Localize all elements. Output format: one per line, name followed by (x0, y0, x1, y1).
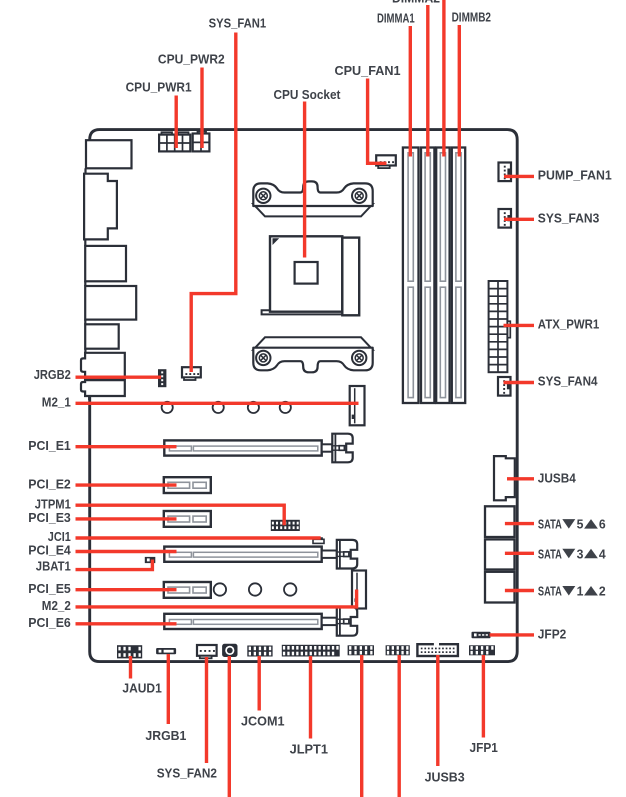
label JCOM1 (241, 714, 285, 729)
svg-text:SYS_FAN2: SYS_FAN2 (157, 766, 217, 781)
leader JRGB1 (167, 654, 170, 724)
label M2_2 (42, 598, 71, 613)
leader PCI_E6 (76, 622, 177, 625)
header JLPT1 (282, 645, 340, 657)
mounting holes row (162, 402, 291, 413)
leader PUMP_FAN1 (504, 175, 534, 178)
DIMM slot DIMMA1 (403, 148, 419, 404)
connector CPU_FAN1 (376, 155, 396, 168)
leader JUSB1 (360, 655, 363, 797)
connector JUSB4 (494, 456, 515, 500)
label DIMMA1 (377, 10, 415, 25)
label SYS_FAN2 (157, 766, 217, 781)
svg-text:PCI_E4: PCI_E4 (28, 543, 71, 558)
jumper JBAT1 (145, 557, 156, 563)
svg-text:JAUD1: JAUD1 (122, 680, 161, 695)
slot PCI_E6 (x16) (164, 607, 357, 636)
label ATX_PWR1 (538, 316, 600, 331)
edge segment ports 1-2 (84, 168, 86, 173)
svg-text:CPU_FAN1: CPU_FAN1 (335, 63, 401, 78)
leader SYS_FAN2 (205, 657, 208, 763)
CPU bracket top (253, 181, 372, 216)
leader JRGB2 (76, 376, 162, 379)
svg-text:JFP1: JFP1 (470, 740, 498, 755)
label SATA 1/2 (538, 584, 606, 599)
connector SYS_FAN2 (197, 645, 217, 658)
CPU socket center pad (295, 262, 318, 284)
svg-text:5: 5 (577, 517, 584, 532)
label JRGB2 (34, 367, 71, 382)
label PCI_E5 (28, 581, 71, 596)
svg-text:SATA: SATA (538, 517, 562, 532)
CPU bracket bottom (253, 337, 372, 372)
label SYS_FAN4 (538, 374, 599, 389)
svg-text:PCI_E5: PCI_E5 (28, 581, 71, 596)
svg-text:JUSB3: JUSB3 (425, 769, 465, 784)
leader SYS_FAN3 (504, 218, 534, 221)
leader JUSB2 (398, 655, 401, 797)
svg-text:JBAT1: JBAT1 (36, 558, 71, 573)
leader PCI_E5 (76, 588, 177, 591)
slot PCI_E5 (x1) (164, 582, 211, 598)
I/O audio jack 1 (81, 353, 125, 379)
leader JCOM1 (258, 656, 261, 711)
svg-text:DIMMA1: DIMMA1 (377, 10, 415, 25)
leader JLPT1 (309, 656, 312, 739)
connector M2_1 (350, 386, 365, 425)
leader CPU Socket (303, 102, 306, 258)
connector JCI1 (313, 538, 324, 543)
svg-text:1: 1 (577, 584, 584, 599)
slot PCI_E2 (x1) (164, 477, 211, 493)
leader M2_2 (76, 590, 357, 607)
label DIMMB2 (452, 10, 491, 25)
leader PCI_E2 (76, 483, 177, 486)
label JUSB4 (538, 471, 577, 486)
leader DIMMA1 (409, 26, 412, 157)
DIMM slot DIMMB2 (452, 148, 465, 404)
connector SYS_FAN3 (499, 209, 512, 228)
leader PCI_E4 (76, 550, 177, 553)
leader DIMMB2 (458, 25, 461, 157)
svg-text:JUSB4: JUSB4 (538, 471, 577, 486)
leader JBAT1 (76, 560, 153, 570)
leader DIMMA2 (426, 5, 429, 157)
leader SYS_FAN4 (504, 381, 535, 384)
leader JFP2 (490, 633, 534, 636)
leader JUSB4 (507, 477, 534, 480)
connector SATA 5/6 (485, 506, 515, 537)
svg-text:DIMMA2: DIMMA2 (392, 0, 440, 5)
svg-text:SYS_FAN3: SYS_FAN3 (538, 210, 600, 225)
header JUSB1 (348, 645, 374, 655)
leader DIMMB1 (442, 0, 445, 157)
label CPU Socket (274, 87, 342, 102)
leader JCI1 (76, 536, 321, 539)
connector CPU_PWR1 (8-pin) (159, 132, 190, 151)
header JUSB3 (417, 644, 458, 656)
label JTPM1 (35, 496, 71, 511)
label SATA 5/6 (538, 517, 606, 532)
connector SATA 1/2 (485, 572, 515, 603)
leader ATX_PWR1 (504, 324, 535, 327)
leader CPU_PWR1 (174, 96, 177, 149)
connector M2_2 (352, 571, 366, 609)
leader JTPM1 (76, 505, 285, 525)
label JFP2 (538, 627, 567, 642)
connector JRGB1 (156, 648, 176, 654)
I/O port DVI (84, 174, 117, 240)
svg-text:M2_2: M2_2 (42, 598, 71, 613)
DIMM slot DIMMA2 (421, 148, 434, 404)
edge segment ports 3-4 (84, 281, 86, 286)
label JAUD1 (122, 680, 161, 695)
svg-text:SYS_FAN1: SYS_FAN1 (209, 16, 267, 31)
label SATA 3/4 (538, 546, 607, 561)
label JBAT1 (36, 558, 71, 573)
svg-text:CPU_PWR2: CPU_PWR2 (158, 51, 225, 66)
svg-text:CPU Socket: CPU Socket (274, 87, 342, 102)
svg-text:JCOM1: JCOM1 (241, 714, 285, 729)
label CPU_PWR1 (126, 80, 192, 95)
svg-text:ATX_PWR1: ATX_PWR1 (538, 316, 600, 331)
svg-text:4: 4 (599, 546, 607, 561)
slot PCI_E3 (x1) (164, 511, 211, 527)
svg-text:SYS_FAN4: SYS_FAN4 (538, 374, 599, 389)
connector speaker/jack round (222, 644, 237, 657)
label JUSB3 (425, 769, 465, 784)
DIMM slot DIMMB1 (436, 148, 449, 404)
label PUMP_FAN1 (538, 167, 612, 182)
connector CPU_PWR2 (4-pin) (193, 132, 210, 152)
connector JRGB2 (158, 369, 166, 387)
label PCI_E2 (28, 476, 71, 491)
svg-text:JRGB2: JRGB2 (34, 367, 71, 382)
edge segment ports 7-bottom (88, 396, 90, 400)
slot PCI_E4 (x16) (164, 540, 357, 569)
leader SATA56 (505, 522, 534, 525)
svg-text:CPU_PWR1: CPU_PWR1 (126, 80, 192, 95)
svg-text:PCI_E6: PCI_E6 (28, 615, 71, 630)
leader PCI_E3 (76, 517, 177, 520)
label SYS_FAN1 (209, 16, 267, 31)
leader SATA12 (505, 589, 534, 592)
slot PCI_E1 (x16) (164, 434, 352, 463)
label CPU_PWR2 (158, 51, 225, 66)
connector JFP2 (472, 632, 491, 639)
label SYS_FAN3 (538, 210, 600, 225)
edge segment ports 4-5 (84, 320, 86, 325)
svg-text:6: 6 (599, 517, 606, 532)
svg-text:SATA: SATA (538, 584, 562, 599)
leader JUSB3 (436, 655, 439, 766)
svg-text:JLPT1: JLPT1 (290, 742, 328, 757)
motherboard outline (90, 130, 518, 662)
label DIMMA2 (392, 0, 440, 5)
svg-text:PCI_E2: PCI_E2 (28, 476, 71, 491)
label PCI_E3 (28, 510, 71, 525)
leader SYS_FAN1 (191, 33, 236, 373)
connector ATX_PWR1 (24-pin) (489, 281, 511, 372)
label JRGB1 (145, 728, 186, 743)
label JLPT1 (290, 742, 328, 757)
I/O port PS2 (86, 140, 132, 168)
label M2_1 (42, 395, 71, 410)
svg-text:DIMMB2: DIMMB2 (452, 10, 491, 25)
leader JAUD1 (129, 656, 132, 679)
header JAUD1 (117, 645, 142, 658)
svg-text:PUMP_FAN1: PUMP_FAN1 (538, 167, 612, 182)
label CPU_FAN1 (335, 63, 401, 78)
I/O port USB block (85, 286, 136, 320)
leader M2_1 (76, 402, 359, 405)
connector SYS_FAN1 (182, 367, 201, 380)
svg-text:PCI_E3: PCI_E3 (28, 510, 71, 525)
header JTPM1 (271, 520, 300, 531)
leader CPU_PWR2 (200, 68, 203, 149)
mounting holes row 2 (214, 583, 297, 595)
connector PUMP_FAN1 (499, 163, 512, 182)
leader JFP1 (482, 655, 485, 738)
label PCI_E1 (28, 438, 71, 453)
leader CPU_FAN1 (368, 79, 387, 164)
leader speaker round (228, 656, 231, 797)
I/O port LAN (85, 246, 126, 281)
svg-text:M2_1: M2_1 (42, 395, 71, 410)
leader SATA34 (505, 552, 534, 555)
svg-text:PCI_E1: PCI_E1 (28, 438, 71, 453)
svg-text:2: 2 (599, 584, 606, 599)
label PCI_E4 (28, 543, 71, 558)
header JCOM1 (247, 646, 272, 657)
CPU socket outline (270, 236, 359, 315)
CPU socket lever (262, 305, 353, 314)
label PCI_E6 (28, 615, 71, 630)
I/O audio jack 2 (81, 380, 125, 396)
svg-text:SATA: SATA (538, 546, 562, 561)
svg-text:JFP2: JFP2 (538, 627, 567, 642)
svg-text:3: 3 (577, 546, 584, 561)
edge segment ports 2-3 (84, 239, 86, 246)
label JCI1 (48, 529, 71, 544)
connector SATA 3/4 (485, 539, 515, 569)
svg-text:JRGB1: JRGB1 (145, 728, 186, 743)
I/O port USB small (85, 324, 119, 348)
header JUSB2 (386, 645, 410, 655)
header JFP1 (469, 645, 495, 655)
connector SYS_FAN4 (498, 377, 511, 396)
label JFP1 (470, 740, 498, 755)
CPU socket pin1 triangle (273, 238, 280, 245)
edge segment ports 5-6 (84, 349, 86, 353)
leader PCI_E1 (76, 445, 177, 448)
